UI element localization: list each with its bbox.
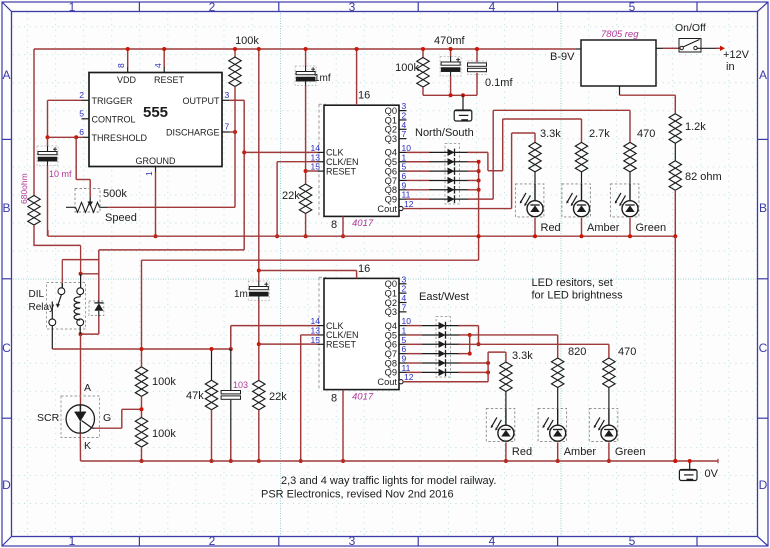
svg-text:5: 5 xyxy=(629,0,636,14)
svg-text:82 ohm: 82 ohm xyxy=(685,171,722,183)
LED Amber ns xyxy=(562,184,591,217)
wire U2 Q7 to diode ns4 xyxy=(407,179,430,181)
wire clk2 drop upper xyxy=(230,326,232,391)
wire 0.1mf bottom xyxy=(476,73,478,96)
wire top power bus xyxy=(34,48,581,50)
svg-text:1: 1 xyxy=(144,171,154,176)
resistor R 47k xyxy=(205,380,217,410)
LED Red ew xyxy=(486,408,515,441)
svg-text:1m: 1m xyxy=(234,289,248,300)
svg-text:1: 1 xyxy=(69,0,76,14)
wire 22k ns to 0V bus xyxy=(304,214,308,239)
U2 pin 8 VSS xyxy=(331,219,337,231)
label 100k upper xyxy=(152,376,176,388)
resistor R 82ohm xyxy=(669,161,681,191)
svg-text:LED resitors, set: LED resitors, set xyxy=(532,277,613,289)
potentiometer R 500k Speed xyxy=(66,189,108,213)
svg-text:4: 4 xyxy=(153,63,163,68)
svg-text:4017: 4017 xyxy=(352,391,374,402)
node gate bus joins clk2 drop xyxy=(229,347,233,351)
resistor R 100k right xyxy=(417,58,429,88)
svg-text:470: 470 xyxy=(637,128,655,140)
svg-text:SCR: SCR xyxy=(37,412,60,424)
wire threshold to pot wiper xyxy=(76,137,90,197)
svg-text:22k: 22k xyxy=(269,391,287,403)
wire U2 Q4 to diode ns1 xyxy=(407,151,430,153)
wire 7805 output to switch xyxy=(656,47,679,49)
wire bus to R 100k right xyxy=(421,47,425,58)
label 1.2k xyxy=(685,121,706,133)
svg-text:15: 15 xyxy=(311,162,321,172)
wire U2 clk-en to 0V bus xyxy=(275,162,317,239)
label Amber ew xyxy=(564,446,597,458)
label A anode xyxy=(84,382,91,394)
svg-text:7805 reg: 7805 reg xyxy=(601,29,639,40)
svg-text:RESET: RESET xyxy=(154,75,185,85)
555 pin TRIGGER 2 xyxy=(79,90,133,106)
svg-text:3: 3 xyxy=(349,0,356,14)
wire U3 Q5 to diode ew2 xyxy=(407,334,423,336)
diode D snubber box xyxy=(89,301,104,316)
svg-text:2: 2 xyxy=(209,0,216,14)
wire GROUND down to 0V bus xyxy=(154,172,158,238)
wire 7805 gnd down xyxy=(620,86,676,114)
thyristor Q SCR xyxy=(66,405,94,433)
wire ns green net xyxy=(468,110,631,199)
svg-text:RESET: RESET xyxy=(326,166,357,176)
svg-text:C: C xyxy=(759,341,768,355)
wire output routing to relay xyxy=(99,250,244,301)
svg-text:1mf: 1mf xyxy=(314,73,331,84)
wire ew q7 stub xyxy=(459,353,470,355)
wire SCR cathode to 0V bus xyxy=(79,433,81,461)
wire trigger net xyxy=(48,100,82,137)
svg-text:100k: 100k xyxy=(152,428,176,440)
wire 680ohm to relay feed xyxy=(33,225,80,245)
wire discharge stub to junction xyxy=(229,131,235,133)
wire U2 reset line xyxy=(306,170,318,172)
label 555 xyxy=(143,104,168,121)
U2 pin Q7 6 xyxy=(385,171,407,186)
svg-text:820: 820 xyxy=(568,346,586,358)
U3 pin RESET 15 xyxy=(311,335,357,350)
svg-text:Red: Red xyxy=(512,446,532,458)
wire LED Amber ew to 0V xyxy=(556,442,560,463)
svg-text:470mf: 470mf xyxy=(434,35,466,47)
U3 pin Q4 10 xyxy=(385,316,412,331)
diode D ew6 xyxy=(422,369,460,377)
regulator U 7805 box xyxy=(581,40,656,86)
diode D ns1 xyxy=(429,149,469,157)
svg-text:100k: 100k xyxy=(235,35,259,47)
svg-text:0V: 0V xyxy=(705,468,719,480)
switch SW On/Off xyxy=(680,40,700,50)
wire 1mf to reset junction xyxy=(304,86,308,185)
svg-text:0.1mf: 0.1mf xyxy=(485,77,513,89)
label 680ohm xyxy=(19,173,29,204)
wire LED Green ns to 0V xyxy=(628,218,632,238)
svg-text:12: 12 xyxy=(404,199,414,209)
wire 0V symbol stub xyxy=(673,459,691,470)
wire U2 Q9 to diode ns6 xyxy=(407,198,430,200)
diode array East/West box xyxy=(436,317,451,378)
svg-text:4: 4 xyxy=(489,0,496,14)
U3 pin Q7 6 xyxy=(385,344,407,359)
svg-text:7: 7 xyxy=(225,122,230,132)
U3 label 4017 xyxy=(352,391,374,402)
svg-text:for LED brightness: for LED brightness xyxy=(532,290,624,302)
wire 22k ew to 0V bus xyxy=(257,410,261,463)
diode D ns4 xyxy=(429,177,469,185)
svg-text:CONTROL: CONTROL xyxy=(92,115,136,125)
label 470 ew xyxy=(618,346,636,358)
op-amp U1 555 box xyxy=(89,73,222,167)
wire U3 pin16 feed xyxy=(259,271,357,279)
wire junction down to pot xyxy=(234,132,236,207)
label 470mf xyxy=(434,35,466,47)
wire ns amber net xyxy=(468,119,582,171)
wire gate bus to 47k xyxy=(210,347,214,380)
555 pin VDD xyxy=(116,63,137,85)
svg-text:680ohm: 680ohm xyxy=(19,173,29,204)
U3 pin Q5 1 xyxy=(385,325,407,340)
counter U U2 4017 box xyxy=(319,104,399,216)
wire output net right xyxy=(229,100,244,250)
wire RESET to bus xyxy=(162,47,166,67)
label DIL Relay xyxy=(29,289,55,313)
diode D ns5 xyxy=(429,186,469,194)
wire U3 reset line xyxy=(259,343,318,345)
svg-text:A: A xyxy=(2,68,10,82)
label 500k xyxy=(103,188,127,200)
LED Amber ew xyxy=(538,408,567,441)
label Red ew xyxy=(512,446,532,458)
U2 pin Q1 2 xyxy=(385,110,407,125)
svg-text:8: 8 xyxy=(331,392,337,404)
svg-text:8: 8 xyxy=(116,63,126,68)
svg-text:+12V: +12V xyxy=(723,49,750,61)
wire ns rows to common xyxy=(468,171,479,190)
U3 pin CLK/EN 13 xyxy=(311,325,359,340)
svg-text:6: 6 xyxy=(79,127,84,137)
svg-text:22k: 22k xyxy=(282,190,300,202)
label East/West xyxy=(419,291,469,303)
wire pot to output net xyxy=(108,206,235,208)
svg-text:Q9: Q9 xyxy=(385,194,397,204)
U2 pin Q6 5 xyxy=(385,162,407,177)
U2 pin Q4 10 xyxy=(385,143,412,158)
label 0V xyxy=(705,468,719,480)
wire U3 Cout to ew red xyxy=(403,352,506,382)
node threshold junction xyxy=(46,135,50,139)
svg-text:1.2k: 1.2k xyxy=(685,121,706,133)
LED Green ew xyxy=(589,408,618,441)
resistor R 22k ns xyxy=(299,184,311,214)
wire ew q4 drop xyxy=(459,326,481,347)
resistor R 1.2k xyxy=(669,114,681,144)
capacitor C 1m ew xyxy=(248,281,269,301)
wire bus to C 0.1mf xyxy=(475,47,479,62)
U3 pin 8 VSS xyxy=(331,392,337,404)
capacitor C 1mf xyxy=(295,66,316,86)
svg-text:3.3k: 3.3k xyxy=(540,128,561,140)
node output to CLK junction xyxy=(242,150,246,154)
svg-text:TRIGGER: TRIGGER xyxy=(92,96,134,106)
label 1mf xyxy=(314,73,331,84)
label 100k (astable) xyxy=(235,35,259,47)
svg-text:B-9V: B-9V xyxy=(550,51,575,63)
555 pin THRESHOLD 6 xyxy=(79,127,147,143)
U3 pin Q6 5 xyxy=(385,335,407,350)
svg-text:Green: Green xyxy=(636,222,667,234)
resistor R 2.7k ns xyxy=(575,142,587,172)
wire threshold line xyxy=(48,135,84,139)
wire relay junction to SCR anode xyxy=(80,334,82,410)
label 1m ew xyxy=(234,289,248,300)
wire LED Red ns to 0V xyxy=(533,218,537,238)
wire 1.2k to 82ohm xyxy=(674,143,676,161)
wire 47k to 0V bus xyxy=(210,410,214,463)
label 0.1mf xyxy=(485,77,513,89)
resistor R 3.3k ew xyxy=(500,362,512,392)
label Green ew xyxy=(615,446,646,458)
wire coil bottom stub xyxy=(79,326,81,334)
svg-text:2: 2 xyxy=(79,90,84,100)
U3 pin Q0 3 xyxy=(385,274,407,289)
wire Green ew resistor to LED xyxy=(608,388,610,409)
svg-text:8: 8 xyxy=(331,219,337,231)
label title line1 xyxy=(281,475,496,487)
label 470 ns xyxy=(637,128,655,140)
555 pin DISCHARGE 7 xyxy=(166,122,230,138)
svg-text:3: 3 xyxy=(225,90,230,100)
U2 pin CLK 14 xyxy=(311,143,344,158)
svg-text:C: C xyxy=(2,341,11,355)
U3 pin Q1 2 xyxy=(385,284,407,299)
wire Green ns resistor to LED xyxy=(629,172,631,184)
diode D snubber xyxy=(94,301,103,317)
svg-text:1: 1 xyxy=(69,534,76,548)
resistor R 22k ew xyxy=(253,380,265,410)
svg-text:555: 555 xyxy=(143,104,168,121)
U3 pin 16 VDD xyxy=(358,263,370,275)
label 10 mf xyxy=(49,169,72,179)
wire LED Green ew to 0V xyxy=(607,442,611,463)
wire snubber to coil bottom xyxy=(79,317,99,337)
node divider junction xyxy=(140,396,144,417)
svg-text:Q3: Q3 xyxy=(385,307,397,317)
U2 pin Q5 1 xyxy=(385,152,407,167)
svg-text:4017: 4017 xyxy=(352,218,374,229)
label B-9V xyxy=(550,51,575,63)
U2 pin Q2 4 xyxy=(385,120,407,135)
svg-text:North/South: North/South xyxy=(415,127,474,139)
svg-text:DIL: DIL xyxy=(29,289,45,300)
wire divider to 0V bus xyxy=(140,447,144,463)
label 100k right xyxy=(395,62,419,74)
label On/Off xyxy=(675,22,706,34)
wire ew amber net xyxy=(459,333,558,358)
svg-text:2: 2 xyxy=(209,534,216,548)
wire VDD to bus xyxy=(126,47,130,67)
label LED resistors note xyxy=(532,277,624,302)
wire 1mf2 to reset2 xyxy=(257,301,261,381)
svg-text:7: 7 xyxy=(402,302,407,312)
capacitor C 10mf xyxy=(37,146,58,166)
wire U3 Q8 to diode ew5 xyxy=(407,362,423,364)
resistor R 100k (astable) xyxy=(229,57,241,87)
relay K1 DIL box xyxy=(47,283,86,330)
svg-text:16: 16 xyxy=(358,263,370,275)
svg-text:DISCHARGE: DISCHARGE xyxy=(166,128,220,138)
555 pin OUTPUT 3 xyxy=(183,90,230,106)
switch SW On/Off box xyxy=(679,39,701,53)
svg-text:12: 12 xyxy=(404,372,414,382)
wire SCR gate xyxy=(95,409,142,428)
svg-text:B: B xyxy=(759,201,767,215)
svg-text:G: G xyxy=(103,412,111,424)
svg-text:2.7k: 2.7k xyxy=(589,128,610,140)
label 3.3k ns xyxy=(540,128,561,140)
diode D ns2 xyxy=(429,158,469,166)
diode D ew2 xyxy=(422,331,460,339)
ground symbol 0V xyxy=(679,470,697,481)
diode D ns6 xyxy=(429,195,469,203)
wire bus to C 1mf xyxy=(304,47,308,67)
svg-text:15: 15 xyxy=(311,335,321,345)
svg-text:D: D xyxy=(759,478,768,492)
U2 pin RESET 15 xyxy=(311,162,357,177)
label Red ns xyxy=(541,222,561,234)
wire U3 Q6 to diode ew3 xyxy=(407,343,423,345)
label 100k lower xyxy=(152,428,176,440)
wire ew green net xyxy=(459,344,609,358)
label 82 ohm xyxy=(685,171,722,183)
label Speed xyxy=(105,212,137,224)
wire Amber ew resistor to LED xyxy=(557,388,559,409)
wire U2 Q6 to diode ns3 xyxy=(407,170,430,172)
svg-text:GROUND: GROUND xyxy=(136,156,176,166)
wire 0V mid bus xyxy=(48,230,675,236)
LED Green ns xyxy=(610,184,639,217)
svg-text:Cout: Cout xyxy=(377,204,397,214)
label +12V in xyxy=(723,49,750,73)
svg-text:THRESHOLD: THRESHOLD xyxy=(92,133,148,143)
svg-text:On/Off: On/Off xyxy=(675,22,706,34)
label Green ns xyxy=(636,222,667,234)
wire U2 Q8 to diode ns5 xyxy=(407,189,430,191)
U3 pin Q2 4 xyxy=(385,293,407,308)
555 pin RESET xyxy=(153,63,185,85)
label K cathode xyxy=(84,440,91,452)
svg-text:Speed: Speed xyxy=(105,212,137,224)
555 pin CONTROL 5 xyxy=(79,109,135,125)
relay switch contact xyxy=(52,295,61,319)
diode D ew3 xyxy=(422,341,460,349)
relay coil xyxy=(74,295,80,320)
U2 pin Q9 11 xyxy=(385,190,411,205)
svg-text:in: in xyxy=(726,61,735,73)
thyristor Q SCR box xyxy=(61,396,100,438)
wire junction to C 10mf xyxy=(47,137,49,146)
capacitor C 103 xyxy=(221,391,240,400)
svg-text:103: 103 xyxy=(233,380,248,390)
label SCR xyxy=(37,412,60,424)
wire bus to R 100k xyxy=(233,47,237,57)
svg-text:47k: 47k xyxy=(186,390,204,402)
U3 pin Q8 9 xyxy=(385,354,407,369)
svg-text:Red: Red xyxy=(541,222,561,234)
wire U2 Cout to ns red xyxy=(403,133,535,209)
label title line2 xyxy=(261,489,454,501)
wire Amber ns resistor to LED xyxy=(581,172,583,184)
diode D ew5 xyxy=(422,359,460,367)
wire ns red-common drop xyxy=(468,160,481,260)
svg-text:4: 4 xyxy=(489,534,496,548)
wire U3 Q4 to diode ew1 xyxy=(407,325,423,327)
wire 100k to discharge junction xyxy=(233,87,237,135)
svg-text:100k: 100k xyxy=(152,376,176,388)
U3 pin Q3 7 xyxy=(385,302,407,317)
wire U3 pin8 to 0V bus xyxy=(341,390,345,463)
wire Red ns resistor to LED xyxy=(534,172,536,184)
label 103 xyxy=(233,380,248,390)
svg-text:500k: 500k xyxy=(103,188,127,200)
wire ns common to gate bus xyxy=(142,260,479,349)
svg-text:5: 5 xyxy=(629,534,636,548)
wire U2 pin8 to 0V bus xyxy=(341,216,345,238)
svg-text:A: A xyxy=(84,382,91,394)
wire left drop to 680ohm xyxy=(33,49,35,196)
label 22k ew xyxy=(269,391,287,403)
U3 pin Q9 11 xyxy=(385,363,411,378)
label 820 ew xyxy=(568,346,586,358)
resistor R 100k upper xyxy=(135,367,147,397)
svg-text:10 mf: 10 mf xyxy=(49,169,72,179)
U3 pin Cout 12 xyxy=(377,372,413,387)
svg-text:Cout: Cout xyxy=(377,377,397,387)
wire coil top feed xyxy=(79,245,83,287)
U2 pin Cout 12 xyxy=(377,199,413,214)
svg-text:470: 470 xyxy=(618,346,636,358)
svg-text:PSR Electronics, revised Nov 2: PSR Electronics, revised Nov 2nd 2016 xyxy=(261,489,454,501)
resistor R 680ohm xyxy=(28,196,40,226)
capacitor C 470mf xyxy=(440,57,461,77)
U2 pin Q0 3 xyxy=(385,101,407,116)
U2 label 4017 xyxy=(352,218,374,229)
label 3.3k ew xyxy=(512,350,533,362)
U2 pin Q8 9 xyxy=(385,180,407,195)
svg-text:16: 16 xyxy=(358,90,370,102)
LED Red ns xyxy=(515,184,544,217)
resistor R 470 ew xyxy=(603,358,615,388)
wire switch to +12V xyxy=(697,46,725,51)
wire cap bottoms bus xyxy=(423,93,477,97)
wire 100k right bottom xyxy=(422,87,424,95)
label Amber ns xyxy=(587,222,620,234)
resistor R 100k lower xyxy=(135,418,147,448)
wire relay switch bottom to gate bus xyxy=(52,326,231,349)
svg-text:East/West: East/West xyxy=(419,291,469,303)
wire coil junction to snubber xyxy=(81,273,99,275)
wire LED Amber ns to 0V xyxy=(580,218,584,238)
svg-text:K: K xyxy=(84,440,91,452)
svg-text:D: D xyxy=(2,478,11,492)
wire 470mf bottom xyxy=(450,76,452,95)
svg-text:OUTPUT: OUTPUT xyxy=(183,96,221,106)
resistor R 820 ew xyxy=(552,358,564,388)
wire to gnd symbol xyxy=(462,95,464,110)
